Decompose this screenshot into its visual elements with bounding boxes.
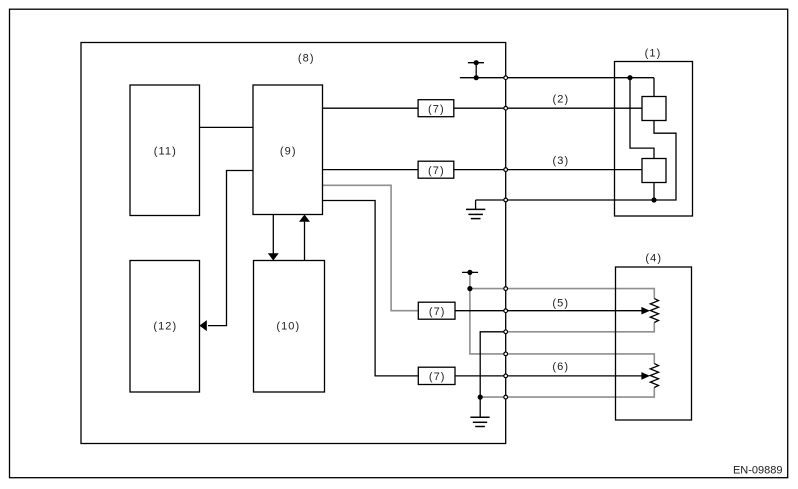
- svg-text:(6): (6): [552, 361, 569, 373]
- svg-text:(4): (4): [645, 252, 662, 264]
- svg-text:(3): (3): [553, 155, 570, 167]
- svg-text:(7): (7): [429, 371, 446, 383]
- svg-text:(7): (7): [428, 165, 445, 177]
- svg-text:(10): (10): [276, 321, 300, 333]
- svg-text:(5): (5): [552, 297, 569, 309]
- svg-text:(1): (1): [645, 48, 662, 60]
- svg-text:(2): (2): [553, 94, 570, 106]
- svg-text:EN-09889: EN-09889: [733, 464, 783, 476]
- svg-text:(7): (7): [429, 306, 446, 318]
- svg-text:(8): (8): [298, 52, 315, 64]
- svg-text:(11): (11): [154, 145, 177, 157]
- svg-text:(7): (7): [428, 104, 445, 116]
- svg-text:(12): (12): [153, 321, 177, 333]
- svg-text:(9): (9): [280, 145, 297, 157]
